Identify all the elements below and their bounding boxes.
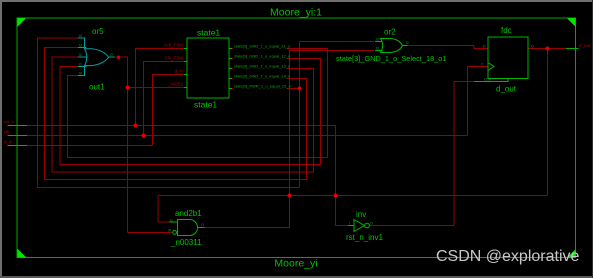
svg-text:state[3]_PWR_1_o_equal_15_o: state[3]_PWR_1_o_equal_15_o [234,83,291,88]
junction clk/in2 [142,134,146,138]
svg-text:I0: I0 [168,229,171,233]
svg-text:Moore_yi: Moore_yi [274,258,317,270]
wire q_out feedback to and2b1 upper input [158,196,169,223]
svg-text:and2b1: and2b1 [175,209,202,218]
frame corner triangle top-left [18,18,27,27]
port rst_n stub [8,125,28,127]
junction row5/or2in1 [298,87,302,91]
svg-text:d_in: d_in [4,140,13,145]
svg-text:rst_n: rst_n [4,120,15,125]
state1 block [184,38,232,98]
wire rst_n branch up to state1 in1 [136,49,185,126]
or5 output connection dot [117,56,120,59]
wire fdc Q output [528,48,566,50]
wire state row5 PWR equal_15_o [229,88,300,90]
wire row5 vertical up to or2 in1 and down to loop [299,42,301,188]
frame corner triangle bottom-right [567,249,576,258]
svg-text:O: O [201,223,204,227]
state1 input net labels [163,43,183,87]
port d_in stub [8,145,28,147]
junction rst_n/in1 [134,124,138,128]
svg-text:out1: out1 [89,83,105,92]
svg-text:_n00311: _n00311 [170,238,202,247]
svg-text:or2: or2 [384,28,396,37]
svg-text:state1: state1 [194,100,217,110]
junction feedback n00311 [288,194,292,198]
wire q_out feedback vertical [547,49,549,196]
svg-text:I0: I0 [79,72,82,76]
frame corner triangle bottom-left [18,249,27,258]
svg-text:state[3]_GND_1_o_Select_18_o1: state[3]_GND_1_o_Select_18_o1 [336,54,447,63]
svg-text:state[3]_GND_1_o_equal_14_o: state[3]_GND_1_o_equal_14_o [234,73,291,78]
frame corner triangle top-right [567,18,576,27]
junction q_out [546,47,550,51]
svg-text:inv: inv [356,210,366,219]
wire port rst_n horizontal [27,125,336,127]
wire clk branch up to state1 in2 [144,62,185,136]
svg-text:_n0052: _n0052 [167,82,184,87]
junction out1/in4 [126,86,130,90]
wire state row2 equal_12_o loop to or5 pin4 [60,59,321,165]
and2b1 input bubble [173,231,177,235]
svg-text:rst_n_inv1: rst_n_inv1 [346,233,383,242]
wire state row1 equal_11_o loop to or5 pin5 [68,49,328,158]
CSDN watermark [436,248,579,266]
svg-text:state[3]_GND_1_o_equal_11_o: state[3]_GND_1_o_equal_11_o [234,43,291,48]
state1 input pin ticks [184,49,232,89]
or5 gate U_or5 [78,38,115,76]
svg-text:I1: I1 [170,219,173,223]
fdc flip-flop [474,37,528,82]
svg-text:fdc: fdc [501,26,512,35]
svg-text:clk: clk [4,130,10,135]
state1 output net labels (black bg to mask wire) [233,43,291,90]
port stubs green [8,49,579,146]
wire out1 branch to state1 in4 [128,87,185,89]
svg-text:I: I [349,222,350,226]
svg-text:I1: I1 [79,63,82,67]
wire or2 in1 horizontal [300,41,375,43]
wire rst_n vertical down to inv row [335,126,337,226]
wire inv output to fdc CLR [370,82,475,226]
svg-text:I0: I0 [376,47,379,51]
wire clk vertical up to fdc C [468,67,489,136]
svg-text:state[3]_GND_1_o_equal_12_o: state[3]_GND_1_o_equal_12_o [234,53,291,58]
inv gate [348,220,369,232]
fdc CLR stub [474,79,508,82]
svg-text:Ack_FSM: Ack_FSM [163,43,183,48]
port d_out stub [566,48,579,50]
svg-text:O: O [110,53,113,57]
fdc clock triangle [488,63,494,71]
wire state row3 equal_13_o loop to or5 pin3 [52,57,314,172]
wire rst_n to inv input [336,225,355,227]
svg-text:or5: or5 [92,27,104,36]
svg-text:I4: I4 [79,34,82,38]
svg-text:I2: I2 [79,53,82,57]
wire and2b1 output _n00311 [205,51,375,228]
svg-text:d_out: d_out [496,85,517,94]
svg-text:d_out: d_out [579,43,591,48]
junction feedback rst [334,194,338,198]
and2b1 gate [169,220,205,236]
svg-text:d_in: d_in [174,69,183,74]
svg-text:Q: Q [531,45,534,49]
wire state row4 equal_14_o loop to or5 pin2 [45,48,307,180]
wire d_in up to state1 in3 [153,75,185,146]
wire row5 loop bottom to or5 pin1 [38,38,300,188]
svg-text:state[3]_GND_1_o_equal_13_o: state[3]_GND_1_o_equal_13_o [234,63,291,68]
svg-text:I3: I3 [79,44,82,48]
svg-text:state1: state1 [197,28,220,38]
or2 gate [375,39,408,53]
inv output bubble [365,223,370,228]
svg-text:O: O [406,41,409,45]
svg-text:CLR: CLR [484,78,491,82]
port clk stub [8,135,28,137]
wire out1 from or5 output [115,57,128,232]
wire port clk horizontal [27,135,468,137]
svg-text:O: O [370,222,373,226]
svg-text:Clk_FSM: Clk_FSM [164,56,183,61]
wire out1 to and2b1 lower input [128,232,173,234]
svg-text:I1: I1 [376,38,379,42]
wire q_out feedback horizontal [158,195,548,197]
wire port d_in horizontal [27,145,153,147]
wire or2 output to fdc D [408,46,489,49]
svg-text:Moore_yi:1: Moore_yi:1 [270,7,322,19]
